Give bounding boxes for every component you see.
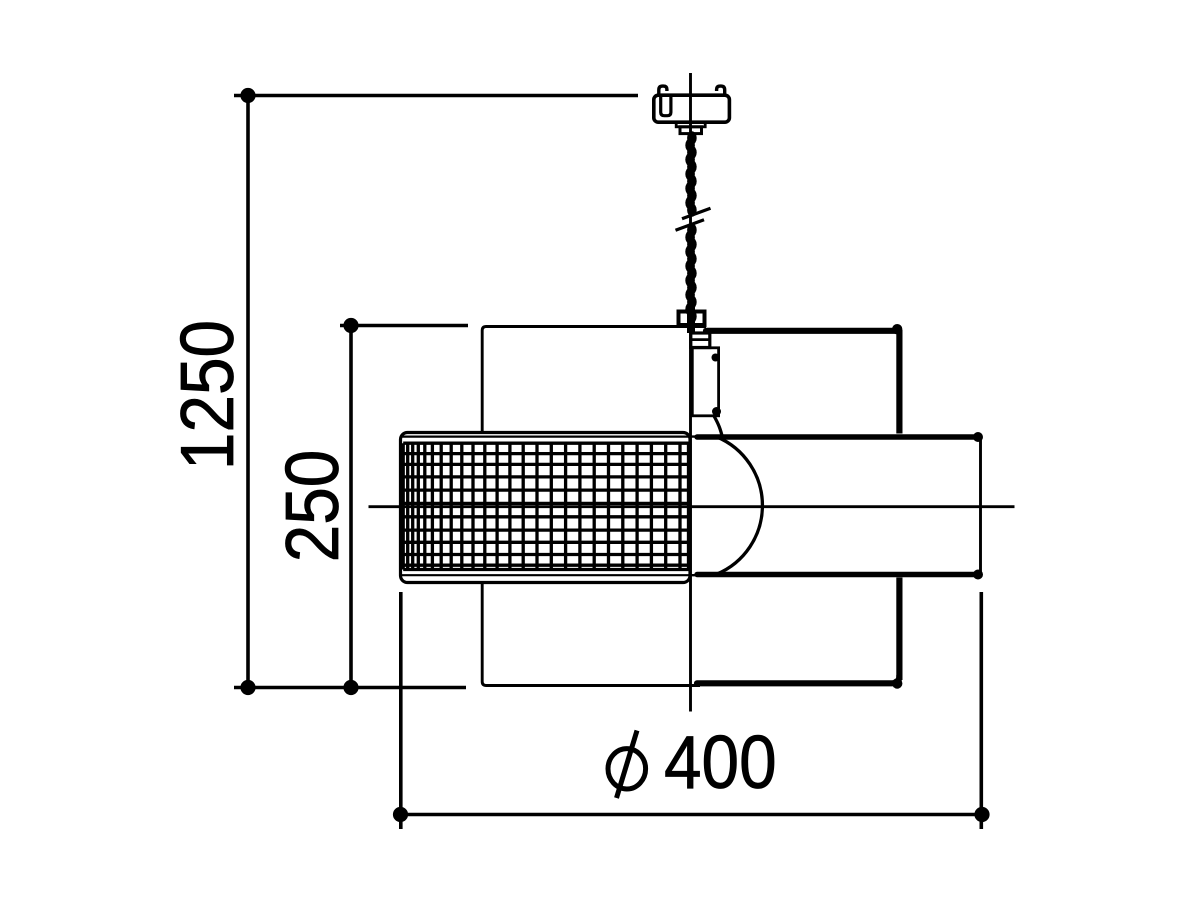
glass tube right edge [979,439,982,573]
dim 400 extension right [979,592,983,829]
dim 1250 line [246,96,250,688]
socket nub upper [712,354,720,362]
chain break mark upper [682,208,711,219]
dim 1250 dot top [240,88,255,103]
shade corner dot bottom right [892,678,902,688]
socket nub lower [712,407,721,416]
bulb arc [717,437,763,574]
dim 1250 dot bottom [240,680,255,695]
dim 400 dot right [974,807,989,822]
dim 1250 extension top [234,94,638,98]
canopy inner hook [661,97,671,116]
shade outline thick top (right half) [706,328,897,334]
dim 250 dot top [343,318,358,333]
chain upper segment [685,131,696,217]
socket body [692,348,718,416]
shade outline thick right edge lower [896,578,902,681]
dim 250 dot bottom [343,680,358,695]
glass tube dot top right [973,432,983,442]
chain end connector [679,312,705,326]
svg-text:250: 250 [271,450,355,563]
canopy stem plate [676,122,705,126]
glass tube bottom line [403,574,977,576]
mesh grid verticals [403,443,688,569]
glass tube thick bottom (right) [697,572,975,577]
mesh cage body [401,433,691,583]
dim 250 line [349,326,353,688]
centerline horizontal [369,505,1015,508]
dim 400 dot left [393,807,408,822]
svg-text:400: 400 [664,721,777,805]
shade outline thick bottom (right half) [697,676,899,683]
bulb neck [714,416,723,439]
canopy stem block [680,127,702,134]
centerline vertical [689,73,692,712]
dim 400 phi symbol [608,731,646,799]
chain break mark lower [676,220,705,231]
mesh rim top line [402,436,690,438]
shade outline thick right edge upper [896,330,902,434]
shade outline thin (left half) [482,327,706,686]
dim shared extension bottom [234,686,466,690]
dim 400 extension left [399,592,403,829]
shade corner dot top right [892,324,902,334]
glass tube thick top (right) [697,434,975,439]
chain link into connector [687,306,695,333]
canopy right clip [717,86,725,96]
glass tube top line [403,435,977,437]
chain lower segment [685,223,696,323]
canopy left clip [659,86,667,96]
glass tube dot bottom right [973,570,983,580]
dim 400 line [400,813,983,817]
svg-text:1250: 1250 [166,320,250,470]
mesh rim bottom line [402,574,690,576]
socket cap [691,333,710,348]
socket cap divider [691,338,710,341]
dim 250 extension top [340,324,468,328]
mesh grid horizontals [403,443,689,569]
canopy cup [654,95,730,122]
